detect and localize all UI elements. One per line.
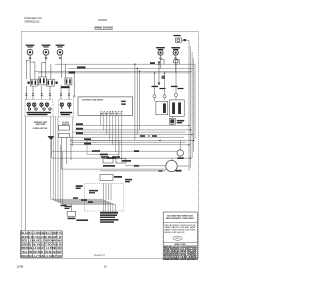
svg-text:ORANGE L2 TAN L1 GREY NN: ORANGE L2 TAN L1 GREY NN: [21, 255, 62, 258]
svg-text:YELLOW BK RED GN BLUE WW: YELLOW BK RED GN BLUE WW: [21, 252, 62, 254]
svg-text:12/98: 12/98: [16, 265, 23, 269]
svg-text:BK RD WH OR YL: BK RD WH OR YL: [100, 114, 123, 116]
svg-text:FEF352A: FEF352A: [98, 18, 107, 22]
svg-text:WHITE BK YELLOW RD GRY W: WHITE BK YELLOW RD GRY W: [21, 237, 62, 239]
svg-text:SWITCHES: SWITCHES: [36, 124, 46, 126]
svg-text:WB WH/BK: WB WH/BK: [164, 258, 181, 260]
svg-text:OVEN LIGHT SW: OVEN LIGHT SW: [33, 128, 48, 130]
svg-text:GREEN BK VIOLET RD TAN W: GREEN BK VIOLET RD TAN W: [21, 243, 62, 246]
svg-text:WIRING DIAGRAM: WIRING DIAGRAM: [94, 26, 113, 30]
svg-text:10: 10: [104, 265, 107, 269]
svg-text:BEING REPLACED: BEING REPLACED: [165, 231, 186, 234]
svg-text:BLACK L1 ORANGE L2 WHT N: BLACK L1 ORANGE L2 WHT N: [21, 232, 62, 235]
svg-text:RW RD/WH: RW RD/WH: [181, 258, 197, 260]
svg-text:RED L2 BLUE L1 BROWN NN: RED L2 BLUE L1 BROWN NN: [21, 241, 62, 243]
svg-text:REPLACEMENT CHART AWG: REPLACEMENT CHART AWG: [166, 217, 195, 220]
svg-text:5995402312: 5995402312: [25, 19, 40, 23]
svg-text:316437137: 316437137: [94, 255, 106, 257]
svg-text:BROWN L2 GRAY L1 PINK NN: BROWN L2 GRAY L1 PINK NN: [21, 247, 62, 250]
svg-text:ELECTRONIC OVEN CONTROL: ELECTRONIC OVEN CONTROL: [82, 99, 103, 101]
